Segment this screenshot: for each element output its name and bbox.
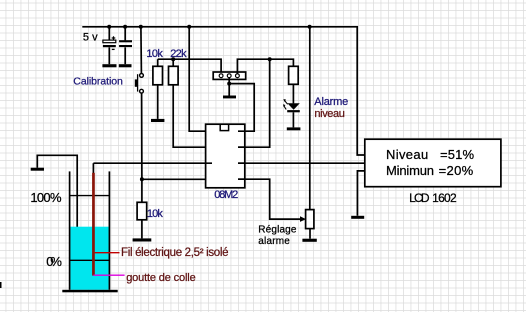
label 10k lower xyxy=(147,208,164,220)
potentiometer R4 xyxy=(306,210,314,239)
node junction pin4 wire xyxy=(140,177,144,181)
water fill xyxy=(70,227,108,290)
node junction dots on +5V rail xyxy=(107,25,311,29)
svg-text:niveau: niveau xyxy=(314,108,345,120)
resistor R2 22k xyxy=(169,59,213,147)
svg-text:10k: 10k xyxy=(146,48,163,60)
pointer line fil electrique xyxy=(95,252,120,254)
label Niveau =51% xyxy=(386,147,475,162)
svg-text:Minimun: Minimun xyxy=(386,163,434,178)
LED D1 xyxy=(283,99,300,127)
label 22k xyxy=(170,48,187,60)
svg-text:1602: 1602 xyxy=(432,191,457,205)
wire pin4 xyxy=(142,178,212,180)
ground under LED xyxy=(287,127,301,130)
label 100% xyxy=(30,190,62,205)
svg-text:Réglage: Réglage xyxy=(258,224,297,235)
node junction connector mid xyxy=(227,82,231,86)
label 08M2 xyxy=(214,189,238,201)
label 5 v xyxy=(83,32,98,44)
resistor R1 10k xyxy=(153,59,163,119)
ground under C1 xyxy=(102,64,116,67)
wire net resistor tops to connector pin1 xyxy=(158,59,221,73)
svg-text:=51%: =51% xyxy=(440,147,475,162)
svg-text:100%: 100% xyxy=(30,190,62,205)
ground under R1 xyxy=(151,119,164,122)
node junction serial out xyxy=(268,57,272,61)
label Calibration xyxy=(73,76,123,88)
LCD U2 display box xyxy=(365,139,501,187)
svg-text:Calibration: Calibration xyxy=(73,76,123,88)
capacitor C1 polarized xyxy=(103,27,116,64)
ground under R5 xyxy=(133,238,152,241)
label Fil electrique xyxy=(121,247,229,259)
svg-text:08M2: 08M2 xyxy=(214,189,238,201)
label Alarme xyxy=(314,96,348,108)
svg-text:5 v: 5 v xyxy=(83,32,98,44)
ground under C2 xyxy=(119,64,132,67)
wire ground to left electrode xyxy=(37,155,77,283)
node junction 22k top xyxy=(171,57,175,61)
svg-text:=20%: =20% xyxy=(439,163,474,178)
ground under potentiometer xyxy=(302,239,316,242)
label goutte de colle xyxy=(126,272,196,284)
pointer line goutte de colle xyxy=(93,274,124,276)
label 0% xyxy=(46,254,62,269)
svg-text:10k: 10k xyxy=(147,208,164,220)
IC U1 PICAXE 08M2 body xyxy=(206,124,245,188)
label niveau xyxy=(314,108,345,120)
switch S1 push-button xyxy=(135,27,144,93)
wire rail to potentiometer top xyxy=(309,27,311,210)
tick 0% line xyxy=(70,259,110,261)
resistor R3 LED series xyxy=(289,66,299,103)
sense electrode red wire xyxy=(92,163,95,275)
tank walls xyxy=(70,171,110,289)
ground tank electrode xyxy=(31,168,44,171)
connector J1 programming header xyxy=(213,72,246,79)
svg-text:LCD: LCD xyxy=(409,191,430,205)
wire LCD ground pin xyxy=(357,171,364,216)
edge artifact left border xyxy=(0,282,2,288)
capacitor C2 xyxy=(119,27,132,64)
label Minimun =20% xyxy=(386,163,474,178)
wire IC pin6 to LCD xyxy=(238,162,365,164)
wire rail to IC pin1 xyxy=(189,27,212,131)
wire IC pin3 to sense electrode xyxy=(93,162,212,164)
wire connector pin2 to ground and IC pin8 xyxy=(229,78,254,131)
svg-text:0%: 0% xyxy=(46,254,62,269)
tick 100% line xyxy=(70,195,110,197)
wire IC pin5 to potentiometer wiper xyxy=(238,179,306,222)
ground under connector xyxy=(223,96,236,99)
svg-text:Fil électrique 2,5² isolé: Fil électrique 2,5² isolé xyxy=(121,247,229,259)
wire switch to junction and resistor xyxy=(141,93,143,202)
wire connector pin3 to LED resistor xyxy=(237,59,293,73)
wire IC pin7 to serial node xyxy=(238,59,270,147)
resistor R5 10k lower xyxy=(137,202,147,238)
label Reglage alarme xyxy=(258,224,297,247)
ground under LCD xyxy=(351,216,364,219)
svg-text:Alarme: Alarme xyxy=(314,96,348,108)
svg-text:goutte de colle: goutte de colle xyxy=(126,272,196,284)
label 10k xyxy=(146,48,163,60)
tank bottom xyxy=(62,290,117,293)
svg-text:alarme: alarme xyxy=(258,236,290,247)
svg-text:Niveau: Niveau xyxy=(386,147,428,162)
label LCD 1602 xyxy=(409,191,457,205)
wire +5V top rail xyxy=(82,27,365,155)
